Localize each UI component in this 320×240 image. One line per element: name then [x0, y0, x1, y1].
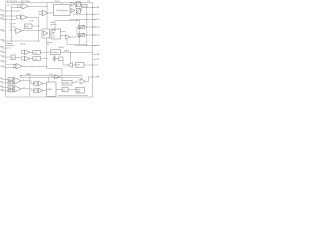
current source CS2 box — [79, 33, 85, 37]
comparator U8 output wire — [22, 65, 47, 67]
svg-text:mod: mod — [33, 59, 37, 61]
node dot SW/bus D — [86, 7, 87, 8]
comparator U1 input wire 2 — [12, 7, 23, 9]
node dot T1 out / bus x47 — [46, 6, 47, 7]
charge pump block — [54, 5, 71, 16]
block B1 (protection logic) — [25, 24, 33, 29]
pin INNR stub — [2, 90, 6, 92]
svg-text:MUT: MUT — [0, 18, 5, 20]
svg-text:REF: REF — [0, 47, 4, 49]
wire under U4 down — [67, 39, 87, 44]
block M1 out wire — [41, 51, 47, 53]
svg-text:CFG: CFG — [0, 61, 4, 63]
A2 out wire — [21, 89, 34, 91]
ramp comparator triangle — [44, 31, 49, 36]
comparator U2 input box — [17, 15, 21, 18]
current source CS1 box — [79, 25, 85, 29]
mosfet Q1 — [76, 2, 80, 7]
PWM logic block — [51, 29, 61, 39]
pin INNL stub — [2, 82, 6, 84]
bus2 drop x=29.8 — [29, 77, 31, 97]
mosfet Q2 diagonal — [76, 8, 80, 13]
agnd wire y=45.5 — [75, 45, 96, 47]
node dot cs1/border — [92, 26, 93, 27]
block B1 output wire — [32, 25, 39, 27]
svg-text:ILIM: ILIM — [76, 65, 80, 67]
comparator U3 — [16, 28, 22, 34]
svg-text:V3: V3 — [10, 30, 12, 32]
wire R2 to A1 — [13, 82, 15, 84]
svg-text:FA: FA — [97, 76, 100, 79]
wire block R down — [62, 61, 64, 65]
buffer U10 out wire — [86, 77, 93, 81]
right pin CS2 stub — [93, 34, 97, 36]
input resistor R2 — [8, 81, 13, 84]
wire pin to R1 — [6, 78, 8, 80]
node dot agnd/bus D — [86, 45, 87, 46]
comparator U1 input wire 1 — [12, 4, 23, 6]
pgnd wire y=19.5 — [70, 19, 96, 21]
block M2 out wire — [41, 58, 47, 60]
svg-text:OCP: OCP — [29, 20, 34, 22]
svg-text:Oscillator: Oscillator — [51, 51, 59, 54]
pin IN1 internal wire — [6, 10, 20, 12]
node dot pgnd/bus D — [86, 19, 87, 20]
svg-text:IL: IL — [97, 65, 99, 67]
right pin PGND stub — [93, 19, 97, 21]
current limit box — [76, 63, 85, 68]
svg-text:INL: INL — [0, 82, 3, 84]
svg-text:CS: CS — [97, 27, 100, 29]
svg-text:Av: Av — [34, 89, 36, 92]
wire bus E to T9 — [47, 69, 62, 76]
svg-text:L: L — [24, 79, 25, 81]
bus B vertical x=38.8 — [38, 17, 40, 41]
bottom wire y=95.3 — [58, 94, 88, 96]
svg-text:INR: INR — [0, 86, 4, 88]
cs left bus vertical — [76, 27, 78, 35]
svg-text:drive ctl: drive ctl — [51, 23, 58, 26]
svg-text:STB: STB — [0, 15, 4, 17]
bus1 corner to U10 — [80, 76, 82, 79]
svg-text:AG: AG — [97, 44, 100, 47]
svg-text:AVCC REG: AVCC REG — [21, 0, 31, 3]
node dot cs2/bus D — [86, 34, 87, 35]
node dot cs2/border — [92, 34, 93, 35]
current sense wire y=35 — [77, 34, 96, 36]
limit box out wire — [84, 64, 93, 66]
svg-text:logic: logic — [52, 32, 55, 34]
comparator U1 output wire — [29, 5, 48, 7]
node dot U8 out — [46, 66, 47, 67]
input resistor R4 — [8, 89, 13, 92]
svg-text:PG: PG — [97, 19, 100, 21]
node dot B1 out / bus B — [38, 25, 39, 26]
svg-text:INL: INL — [0, 78, 3, 80]
current source CS1 arrow — [79, 25, 84, 28]
svg-text:INR: INR — [0, 90, 4, 92]
svg-text:VREG: VREG — [59, 47, 65, 49]
svg-text:CLP: CLP — [0, 66, 4, 68]
buffer U9 out wire — [59, 77, 62, 80]
comparator U2 input wire 1 — [6, 15, 17, 17]
node dot U3 out / bus B — [38, 30, 39, 31]
right pin ILIM stub — [93, 64, 97, 66]
node dot bus1 x21 — [20, 75, 21, 76]
comparator U8 input wire 1 — [6, 64, 16, 66]
svg-text:logic: logic — [25, 26, 29, 28]
svg-text:PVCC: PVCC — [55, 1, 61, 3]
comparator to PWM link wire — [50, 32, 52, 34]
right pin OUT stub — [93, 13, 97, 15]
buffer U6 out wire — [30, 51, 33, 53]
comparator U2 output wire — [28, 16, 39, 18]
block K out wire — [15, 56, 21, 58]
svg-text:Ramp: Ramp — [21, 44, 26, 46]
comparator U8 input wire 2 — [6, 66, 16, 68]
pin IN4 stub — [2, 30, 6, 32]
svg-text:deadtime: deadtime — [63, 81, 70, 84]
ref tap line 1 — [13, 23, 16, 25]
node dot cs1/bus D — [86, 26, 87, 27]
wire R4 to A2 — [13, 90, 15, 92]
svg-text:OC: OC — [7, 5, 10, 7]
node dot out/bus D — [86, 14, 87, 15]
bus1 drop x=21 — [20, 76, 22, 78]
bus E vertical x=46.8 — [46, 52, 48, 68]
svg-text:Av: Av — [34, 82, 36, 85]
buffer T2b — [38, 88, 43, 93]
pin CFG stub — [2, 61, 6, 63]
svg-text:BS: BS — [97, 7, 100, 9]
switch node wire y=7.3 — [82, 6, 97, 8]
node dot bus A / pin IN1 — [11, 10, 12, 11]
block A (dead time) — [62, 80, 72, 85]
pin IN2 stub — [2, 15, 6, 17]
svg-text:RAMP: RAMP — [26, 73, 32, 76]
buffer U7 input box — [21, 57, 24, 60]
op-amp A1 — [15, 78, 22, 84]
bus A vertical x=11.5 — [11, 5, 13, 41]
pin OSC stub — [2, 56, 6, 58]
comparator U2b — [42, 10, 48, 16]
buffer U10 — [80, 79, 86, 84]
node dot bus2 x29.8 — [29, 77, 30, 78]
svg-text:ref: ref — [12, 57, 14, 59]
node dot GND / bus B — [38, 40, 39, 41]
PWM top wire — [54, 21, 56, 30]
pin IN3 stub — [2, 19, 6, 21]
svg-text:BYP: BYP — [0, 51, 4, 53]
svg-text:del: del — [63, 89, 66, 91]
pin BYP stub — [2, 52, 6, 54]
comparator U3 output wire — [22, 30, 42, 32]
vref wire y=52.3 — [63, 51, 93, 53]
svg-text:Charge pump: Charge pump — [56, 9, 67, 12]
current source symbol — [53, 57, 56, 60]
wire U5 to limit box — [73, 64, 76, 66]
half-bridge node wire — [80, 4, 81, 11]
comparator U1 input box — [18, 5, 21, 8]
bus D vertical x=86.8 — [86, 7, 88, 45]
input resistor R3 — [8, 86, 13, 89]
oscillator right wire — [61, 51, 64, 53]
buffer U4 — [66, 35, 71, 39]
current source CS2 arrow — [79, 33, 84, 36]
pin VREF stub — [2, 47, 6, 49]
block B (delay) — [62, 87, 68, 92]
pin REF internal wire — [6, 47, 11, 49]
svg-text:OU: OU — [97, 14, 100, 16]
gate drive wire y=20.5 — [55, 20, 80, 22]
buffer U7 — [25, 56, 31, 61]
wire cs to block R — [56, 58, 59, 60]
gate driver D2 — [71, 9, 75, 13]
oscillator box — [50, 50, 60, 55]
svg-text:VDD: VDD — [0, 30, 4, 32]
node dot bus A / GND wire — [11, 40, 12, 41]
pin IN1 stub — [2, 10, 6, 12]
GND internal wire y=41 — [6, 40, 39, 42]
comparator U2b input box — [39, 11, 42, 14]
bottom bus 1 y=75.6 — [20, 75, 82, 77]
pin CLIP stub — [2, 66, 6, 68]
svg-text:V1: V1 — [10, 23, 12, 25]
node dot ilim/border — [92, 64, 93, 65]
gain block G1 — [34, 82, 38, 85]
bus E upper vertical — [46, 38, 48, 52]
right pin BST stub — [93, 6, 97, 8]
bottom bus 2 y=77.3 — [20, 76, 80, 78]
wire R1 to A1 — [13, 78, 15, 80]
out wire y=14.2 — [73, 13, 96, 15]
wire block B to C — [68, 89, 76, 91]
gain block G2 — [34, 89, 38, 92]
feedback bus x=13.4 — [12, 76, 14, 92]
bootstrap box — [82, 4, 87, 7]
comparator U8 input box — [14, 64, 16, 67]
block M2 — [33, 57, 41, 61]
comparator U2 input wire 2 — [6, 18, 17, 20]
A1 out wire — [21, 81, 34, 84]
svg-text:V2: V2 — [10, 27, 12, 29]
wire R3 to A2 — [13, 86, 15, 88]
gate driver D1 — [71, 2, 75, 6]
pin GND stub — [2, 40, 6, 42]
wire pin to R4 — [6, 90, 8, 92]
ref tap line 3 — [13, 29, 16, 31]
right pin VREG stub — [93, 54, 97, 56]
top bus drop to charge pump — [61, 3, 63, 5]
block M1 — [33, 50, 41, 54]
svg-text:C1P C1N CPV: C1P C1N CPV — [5, 1, 18, 3]
wire to U9 input — [51, 76, 55, 78]
buffer U5 input wire — [63, 64, 68, 66]
bus drop x=48.4 — [47, 77, 49, 82]
svg-text:seq: seq — [52, 36, 55, 38]
block K wire from pin OSC — [6, 56, 11, 58]
node dot U10/border — [92, 76, 93, 77]
ref tap line 2 — [13, 26, 16, 28]
buffer U9 — [55, 75, 60, 79]
mosfet Q1 diagonal — [76, 2, 80, 7]
svg-text:logic: logic — [77, 91, 81, 93]
wire pin to R2 — [6, 82, 8, 84]
buffer U4 output wire — [70, 36, 80, 38]
node dot vref — [70, 52, 71, 53]
svg-text:PV: PV — [88, 1, 91, 3]
buffer U6 input box — [21, 51, 24, 54]
right pin FAULT stub — [93, 76, 97, 78]
right pin SYNC stub — [93, 59, 97, 61]
ramp comparator box — [42, 29, 50, 38]
current source stem — [54, 55, 56, 62]
buffer T1b — [38, 81, 43, 86]
top bus drop x=47 — [46, 3, 48, 30]
block A out wire — [72, 81, 78, 82]
mosfet Q2 — [76, 8, 80, 13]
buffer U5 (left pointing) — [68, 63, 73, 68]
current sense wire y=27 — [77, 26, 96, 28]
vref drop vertical x=70.5 — [70, 52, 72, 62]
PWM out wire 2 — [61, 35, 66, 37]
svg-text:CS: CS — [97, 35, 100, 37]
op-amp A2 — [15, 86, 22, 92]
bus C vertical x=79.8 — [79, 21, 81, 45]
pin INPR stub — [2, 86, 6, 88]
node dot U8 out mid — [31, 66, 32, 67]
block C (drive) — [76, 87, 84, 93]
svg-text:reference: reference — [7, 45, 15, 47]
top bus drop x=75.5 — [75, 3, 77, 9]
right pin CS1 stub — [93, 26, 97, 28]
comparator U2b output wire — [48, 12, 54, 14]
svg-text:FLT: FLT — [0, 10, 4, 12]
block R (trim) — [59, 57, 63, 61]
chip border — [6, 3, 93, 98]
svg-text:SY: SY — [97, 59, 100, 61]
comparator U1 — [22, 4, 29, 10]
comparator U2 — [21, 15, 28, 21]
buffer U6 — [25, 50, 31, 55]
svg-text:PWM: PWM — [52, 30, 57, 32]
wire T2b to PWM box — [43, 90, 47, 92]
comparator U8 — [16, 64, 22, 70]
svg-text:GND: GND — [0, 40, 5, 42]
right pin AGND stub — [93, 45, 97, 47]
buffer U7 out wire — [30, 58, 33, 60]
svg-text:VR: VR — [97, 54, 100, 56]
wire pin to R3 — [6, 86, 8, 88]
node dot out/border — [92, 14, 93, 15]
pin INPL stub — [2, 78, 6, 80]
node dot SW/border — [92, 7, 93, 8]
PWM out wire — [61, 31, 66, 33]
svg-text:PWM: PWM — [47, 89, 52, 91]
block K (bias) — [11, 55, 15, 60]
oscillator left wire — [47, 51, 51, 53]
input resistor R1 — [8, 78, 13, 81]
node dot gate wire — [76, 20, 77, 21]
svg-text:mod: mod — [33, 52, 37, 54]
wire tall box to block B — [56, 89, 62, 91]
svg-text:OSC: OSC — [0, 56, 5, 58]
PWM modulator tall box — [47, 82, 57, 97]
node dot M2/bus E — [46, 58, 47, 59]
wire T1b to PWM box — [43, 83, 47, 85]
